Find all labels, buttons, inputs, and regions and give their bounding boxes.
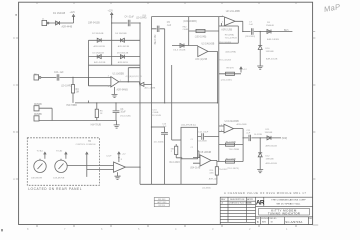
capacitor C5	[157, 26, 159, 32]
wire C2A to U1 node	[60, 77, 111, 103]
power +12V arrow C	[240, 67, 248, 73]
svg-text:FSCM NO.: FSCM NO.	[261, 218, 269, 220]
resistor R4 leads	[72, 77, 74, 103]
svg-text:(10-104R): (10-104R)	[136, 18, 147, 20]
U2 feedback loop	[219, 23, 239, 43]
op-amp U4	[224, 124, 234, 133]
diode D7	[180, 44, 184, 48]
svg-text:A2R-444B: A2R-444B	[62, 25, 73, 28]
U1 ground lead	[114, 87, 116, 94]
svg-text:1N914B: 1N914B	[266, 158, 274, 160]
op-amp U1	[111, 77, 119, 87]
wire J1 to D1	[49, 22, 74, 24]
logo monogram	[256, 200, 265, 207]
svg-text:+12V: +12V	[108, 10, 114, 12]
zone ticks right border	[313, 38, 316, 179]
svg-text:1K: 1K	[100, 113, 103, 115]
revision table header text	[221, 198, 253, 201]
U4 pin numbers	[221, 124, 223, 132]
svg-text:A1B-434B: A1B-434B	[237, 123, 248, 126]
capacitor C3	[113, 111, 120, 113]
resistor R14	[226, 143, 235, 146]
svg-text:WE DO SPEAK IT ALL: WE DO SPEAK IT ALL	[276, 202, 301, 205]
resistor R12	[175, 146, 178, 154]
capacitor C3 leads	[115, 103, 117, 121]
wire ref row1	[219, 144, 243, 146]
U2 pin numbers	[222, 15, 224, 23]
label D11	[265, 129, 273, 134]
svg-text:TD2-7RBB: TD2-7RBB	[229, 149, 240, 151]
zone numbers bottom margin	[27, 227, 288, 231]
svg-text:TD1-10UB: TD1-10UB	[151, 115, 162, 117]
svg-text:1N4148: 1N4148	[265, 132, 273, 134]
svg-text:A2R-9413B: A2R-9413B	[94, 45, 106, 48]
dwg row cells	[261, 217, 309, 225]
svg-text:D1 1N4448: D1 1N4448	[53, 12, 66, 15]
wire DM1 jog	[39, 108, 52, 120]
node rail x140	[139, 23, 141, 184]
bottom bus	[140, 183, 217, 185]
U4 input stubs	[219, 126, 224, 131]
wire ladder rail to U1 pin2	[88, 40, 90, 86]
diode D12	[258, 153, 262, 157]
connector J1	[42, 18, 49, 25]
resistor R7	[196, 29, 205, 32]
svg-text:TR: TR	[88, 141, 91, 143]
label C11	[246, 130, 251, 135]
resistor R5	[95, 109, 98, 117]
svg-text:REV: REV	[221, 199, 226, 201]
wire signal to U2	[152, 16, 224, 18]
potentiometer P2	[55, 159, 67, 173]
svg-text:A3R-14FRB: A3R-14FRB	[267, 38, 279, 41]
diode D5	[120, 55, 124, 59]
svg-text:.1uF: .1uF	[162, 126, 167, 128]
svg-text:(10)-47K2B (C): (10)-47K2B (C)	[181, 125, 196, 127]
svg-text:2: 2	[222, 22, 224, 24]
svg-text:HW-78BR: HW-78BR	[67, 105, 78, 107]
arrow up b	[65, 152, 67, 158]
svg-text:(100-104RR): (100-104RR)	[183, 21, 197, 23]
ladder labels row4	[94, 61, 128, 64]
svg-text:8: 8	[121, 159, 123, 161]
label TD3-10UB	[151, 110, 162, 118]
svg-text:(4B): (4B)	[210, 173, 214, 175]
svg-text:(10-104B): (10-104B)	[154, 142, 164, 144]
resistor R4 1M	[71, 85, 74, 93]
title inner box	[259, 208, 310, 215]
ladder labels row1	[92, 33, 127, 35]
ground U1	[112, 94, 118, 97]
feedback riser U1 out	[128, 68, 140, 82]
wire pots to U6	[67, 166, 113, 170]
svg-text:SC-A/9715A: SC-A/9715A	[285, 220, 302, 224]
divider rail x188.7	[188, 17, 190, 46]
capacitor C11	[249, 135, 251, 141]
wire ref row2	[217, 161, 243, 163]
ground C3	[114, 125, 120, 128]
wire out stage A	[243, 31, 293, 33]
node rail x164.7	[164, 29, 166, 103]
border frame	[19, 2, 313, 224]
company strip bottom	[256, 205, 313, 207]
label R5	[100, 111, 104, 116]
svg-text:U3C (2)L5B: U3C (2)L5B	[195, 59, 208, 61]
svg-text:TO A2: TO A2	[56, 150, 63, 153]
svg-text:C4 .01uF: C4 .01uF	[125, 16, 135, 18]
svg-text:C2A .1uF: C2A .1uF	[54, 71, 64, 74]
wire out stage B	[243, 137, 281, 139]
wire U1 output	[119, 82, 152, 85]
svg-text:AR: AR	[256, 200, 265, 207]
svg-text:APPR: APPR	[247, 198, 253, 201]
op-amp U6	[114, 162, 126, 172]
svg-text:34: 34	[271, 222, 273, 224]
svg-text:LOCATED ON REAR PANEL: LOCATED ON REAR PANEL	[28, 187, 82, 191]
label D10	[266, 48, 274, 53]
dwg number row text	[256, 218, 313, 224]
tick right border at output B	[313, 30, 316, 32]
svg-text:D6-3 1N14B: D6-3 1N14B	[173, 50, 186, 52]
svg-text:.1uF: .1uF	[167, 25, 172, 27]
diode D4	[120, 38, 124, 42]
op-amp U3	[198, 46, 208, 56]
diode D9	[267, 30, 271, 34]
ref-des box bottom center	[154, 198, 169, 207]
svg-text:SIZE: SIZE	[256, 218, 260, 220]
svg-text:D2 1N414B: D2 1N414B	[92, 33, 104, 35]
svg-text:C5: C5	[167, 22, 171, 24]
svg-text:(WR): (WR)	[282, 138, 288, 140]
U5 input stubs	[193, 158, 200, 164]
svg-text:1N4448: 1N4448	[266, 25, 274, 27]
resistor R16	[215, 167, 218, 175]
resistor R5 leads	[96, 103, 98, 121]
svg-text:A2D-9413B: A2D-9413B	[94, 61, 106, 64]
wire U6 out	[126, 166, 141, 168]
svg-text:R8 (2RB): R8 (2RB)	[225, 34, 234, 36]
svg-text:D4 1N414B: D4 1N414B	[115, 33, 127, 35]
diode D6	[140, 82, 144, 86]
svg-text:D10: D10	[266, 48, 271, 50]
ladder labels row2	[94, 45, 130, 48]
capacitor C4	[128, 20, 130, 26]
main ground bus	[75, 102, 218, 104]
label R12	[171, 149, 176, 153]
ground D12	[257, 170, 263, 173]
resistor R9	[226, 72, 235, 75]
U6 power lead	[118, 157, 120, 162]
potentiometer P1	[34, 159, 46, 173]
wire pull-up	[219, 73, 241, 75]
svg-text:D5 1N414B: D5 1N414B	[117, 52, 129, 54]
zone letters left margin	[13, 36, 16, 181]
svg-text:TO A1: TO A1	[37, 150, 44, 153]
logo box	[263, 197, 265, 206]
svg-text:.1uF: .1uF	[249, 24, 254, 26]
scan speck near top-left corner	[16, 14, 17, 15]
svg-text:A: A	[13, 177, 15, 181]
capacitor C14	[161, 133, 168, 135]
svg-text:U54-3L4B: U54-3L4B	[190, 167, 201, 169]
svg-text:DESCRIPTION: DESCRIPTION	[230, 199, 245, 201]
svg-text:C4HB: C4HB	[153, 112, 159, 114]
op-amp U5	[200, 155, 211, 166]
svg-text:TDC-47RLB: TDC-47RLB	[225, 38, 237, 40]
arrow up a	[44, 152, 46, 158]
label C5	[167, 22, 172, 27]
svg-text:3: 3	[108, 86, 110, 88]
svg-text:REF DES: REF DES	[158, 199, 166, 201]
wire C4 left lead	[112, 22, 140, 24]
wire U3 out riser	[208, 51, 218, 103]
ground D10	[257, 66, 263, 69]
svg-text:A3R-94L4B: A3R-94L4B	[266, 145, 278, 148]
diode D1	[56, 21, 60, 25]
svg-text:10uF: 10uF	[120, 112, 126, 114]
svg-text:10R-9413B: 10R-9413B	[88, 23, 100, 25]
svg-text:RL3-43Z3: RL3-43Z3	[170, 162, 181, 164]
resistor R12 leads	[176, 144, 182, 158]
svg-text:U3 1/4LM3B: U3 1/4LM3B	[202, 43, 215, 45]
svg-text:+12: +12	[243, 69, 247, 71]
power +12V arrow D	[118, 152, 126, 158]
svg-text:(10-104R): (10-104R)	[61, 86, 72, 88]
svg-text:10K-MOVE: 10K-MOVE	[53, 178, 65, 180]
svg-text:CONTROL CONSOLE: CONTROL CONSOLE	[76, 144, 97, 146]
svg-text:+12: +12	[122, 153, 126, 155]
svg-text:D: D	[13, 36, 16, 40]
svg-text:HW-78UB: HW-78UB	[91, 124, 102, 126]
wire DM2 bus	[39, 120, 117, 122]
power +12V arrow B	[108, 10, 114, 18]
label HB C4B	[183, 27, 189, 31]
svg-text:B: B	[13, 130, 15, 134]
svg-text:A2D-9413B: A2D-9413B	[118, 45, 130, 48]
wire U2 out drop	[235, 21, 243, 31]
main bus x218	[218, 17, 220, 162]
svg-text:C1: C1	[191, 139, 194, 141]
U6 ground lead	[117, 172, 119, 176]
svg-text:C2: C2	[191, 147, 194, 149]
connector DM1	[34, 106, 39, 111]
svg-text:A3R-94MB: A3R-94MB	[117, 88, 129, 91]
engineering note above title block	[224, 191, 306, 195]
svg-text:4: 4	[175, 227, 177, 231]
wire U4 out drop	[234, 129, 244, 162]
revision entry row text	[222, 202, 253, 205]
U1 pin numbers	[108, 75, 122, 88]
svg-text:(A3) (2RB): (A3) (2RB)	[226, 50, 237, 53]
svg-text:1: 1	[286, 227, 288, 231]
svg-text:(220-100K): (220-100K)	[221, 80, 232, 82]
svg-text:A3R-4014B: A3R-4014B	[266, 162, 278, 165]
svg-text:3: 3	[212, 227, 214, 231]
wire U5 out	[211, 159, 217, 161]
svg-text:8: 8	[27, 227, 29, 231]
svg-text:R9 47K: R9 47K	[227, 67, 235, 69]
svg-text:+12V: +12V	[70, 12, 76, 14]
svg-text:1N914B: 1N914B	[266, 51, 274, 53]
svg-text:(10): (10)	[142, 15, 146, 17]
drawing title text	[268, 208, 300, 215]
svg-text:DM95B: DM95B	[34, 114, 42, 116]
title area bottom	[256, 216, 313, 218]
capacitor C12 leads	[198, 136, 219, 138]
svg-text:(100-104B): (100-104B)	[195, 36, 207, 38]
svg-text:.1uF: .1uF	[246, 133, 251, 135]
svg-text:TUNING INDICATOR: TUNING INDICATOR	[268, 212, 300, 216]
svg-text:(2R 41R3): (2R 41R3)	[245, 36, 255, 38]
arrow up c	[86, 152, 88, 177]
svg-text:2: 2	[171, 151, 173, 153]
scan mark bottom-left margin	[1, 229, 3, 231]
label C3 10uF	[120, 109, 126, 114]
svg-text:U2 1/4-LM3B: U2 1/4-LM3B	[226, 10, 240, 13]
wire diode to U3	[172, 45, 198, 47]
node dot J2 net	[72, 77, 73, 78]
svg-text:MaP: MaP	[323, 2, 341, 14]
C3 ground stub	[116, 121, 118, 125]
svg-text:C: C	[13, 83, 16, 87]
svg-text:5: 5	[138, 227, 140, 231]
svg-text:A CHANGED VALUE OF R22A MODULE: A CHANGED VALUE OF R22A MODULE MDL 17	[224, 191, 306, 195]
svg-text:(TD-10UB): (TD-10UB)	[120, 116, 131, 118]
diode D11	[267, 136, 271, 140]
label C7	[249, 21, 254, 26]
label D9	[266, 22, 274, 27]
svg-text:8091: 8091	[262, 221, 266, 223]
label K1 pins	[191, 139, 194, 149]
svg-text:A3R-4014B: A3R-4014B	[266, 57, 278, 60]
node rail x171.7	[171, 65, 173, 140]
wire cap C14 stub	[152, 127, 165, 184]
svg-text:U4 1/4LM34B: U4 1/4LM34B	[225, 121, 240, 123]
svg-text:B(2): B(2)	[284, 30, 289, 32]
svg-text:C4HB: C4HB	[183, 29, 189, 31]
zener leg B	[259, 138, 261, 170]
svg-text:TDC-10ULB: TDC-10ULB	[219, 60, 231, 62]
svg-text:10K-MOVE: 10K-MOVE	[31, 178, 43, 180]
svg-text:U1 LM35B: U1 LM35B	[113, 73, 125, 76]
svg-text:THE COMMUNICATIONS CORP: THE COMMUNICATIONS CORP	[271, 199, 306, 202]
svg-text:A3R-14B: A3R-14B	[209, 178, 218, 181]
svg-text:R22 C14: R22 C14	[158, 205, 165, 207]
svg-text:C8-392B: C8-392B	[198, 141, 207, 143]
svg-text:(TD1-1RZ3): (TD1-1RZ3)	[227, 168, 239, 170]
svg-text:A2R-941B: A2R-941B	[118, 61, 129, 64]
ladder labels row3	[93, 52, 129, 54]
connector DM2	[34, 116, 39, 121]
power +12V arrow A	[70, 12, 76, 20]
svg-text:C2uF: C2uF	[106, 156, 112, 158]
title block outline	[220, 197, 312, 224]
svg-text:7: 7	[64, 227, 66, 231]
svg-text:(10-3B3): (10-3B3)	[202, 187, 211, 189]
label C14	[162, 123, 167, 128]
svg-text:R14 (7RB): R14 (7RB)	[226, 142, 237, 144]
wire J2 to C2A	[41, 76, 56, 78]
zone ticks top border	[37, 2, 296, 4]
dashed enclosure rear panel	[27, 138, 99, 186]
wire +12V rail down to C4 node	[111, 14, 113, 40]
handwritten pencil note "MaP" top-right margin	[323, 2, 341, 14]
U5 output drop	[216, 160, 218, 184]
capacitor C12	[202, 133, 204, 139]
svg-text:6: 6	[101, 227, 103, 231]
svg-text:C12 .01uF: C12 .01uF	[198, 132, 209, 134]
capacitor C2A	[57, 74, 59, 80]
connector J2	[34, 73, 41, 80]
svg-text:LAST USED: LAST USED	[157, 201, 167, 204]
capacitor C5 leads	[152, 28, 165, 30]
svg-text:TD4-3B2: TD4-3B2	[219, 169, 228, 171]
svg-text:2: 2	[249, 227, 251, 231]
revision table	[220, 201, 255, 222]
node rail x151.5	[151, 17, 153, 185]
ground U6	[115, 176, 121, 179]
zone ticks left border	[16, 38, 19, 179]
svg-text:R15 (2RB): R15 (2RB)	[226, 159, 237, 161]
diode D2	[97, 38, 101, 42]
svg-text:390 OHM: 390 OHM	[153, 35, 155, 45]
svg-text:D3 1N414B: D3 1N414B	[93, 52, 105, 54]
wire D1 to +12V	[73, 16, 75, 23]
op-amp U2	[225, 17, 236, 26]
label R16	[210, 170, 215, 174]
svg-text:14-91RB: 14-91RB	[254, 134, 263, 136]
wire relay right to U5	[198, 151, 200, 158]
svg-text:DWG NO.: DWG NO.	[270, 218, 278, 220]
svg-text:1M: 1M	[76, 92, 79, 94]
company name lines	[271, 199, 306, 206]
zone ticks bottom border	[37, 225, 296, 228]
capacitor C7	[251, 28, 253, 34]
diode ladder rails	[89, 40, 141, 65]
label D12	[266, 155, 274, 160]
zener leg A	[259, 32, 261, 67]
wire to U2 inverting	[189, 30, 219, 32]
diode D3	[97, 55, 101, 59]
wire relay left	[172, 139, 181, 141]
svg-text:DM94B: DM94B	[34, 104, 42, 106]
wire relay to bus	[180, 159, 182, 185]
svg-text:A2C-14MB: A2C-14MB	[145, 87, 156, 90]
svg-text:B: B	[257, 221, 259, 224]
relay K1 box	[181, 127, 198, 159]
bottom border overshoot mark	[313, 224, 319, 226]
diode D10	[258, 46, 262, 50]
svg-text:D12: D12	[266, 155, 271, 157]
resistor R15	[226, 160, 235, 163]
svg-text:U5 LM34B: U5 LM34B	[200, 152, 211, 154]
svg-text:A3R-2U5B: A3R-2U5B	[221, 28, 232, 31]
